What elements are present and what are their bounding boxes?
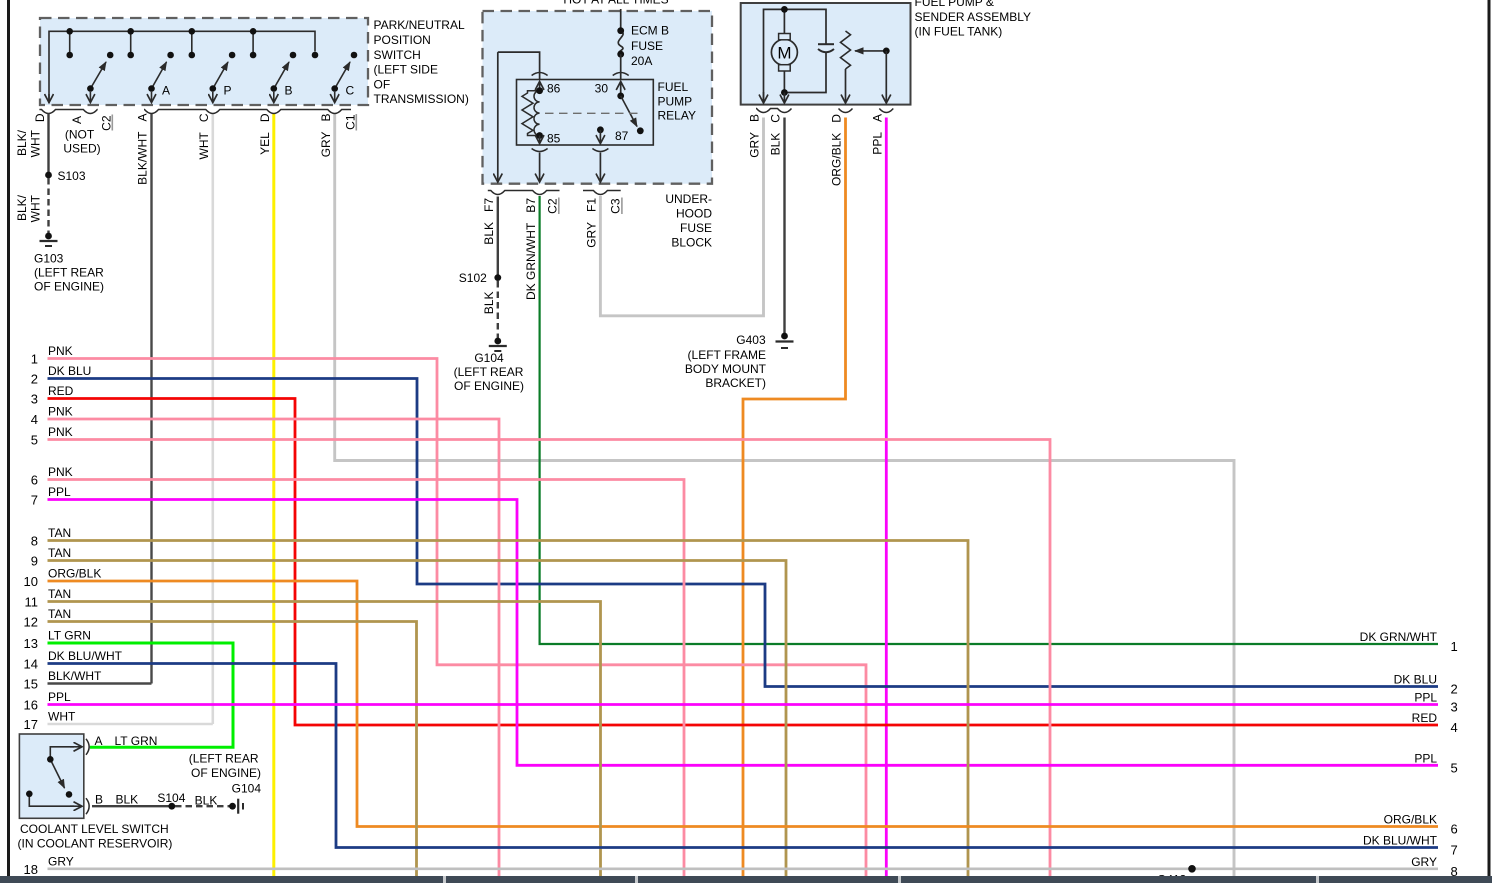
sender wiper arrow [855, 50, 886, 52]
svg-text:14: 14 [24, 657, 38, 672]
svg-text:GRY: GRY [48, 854, 74, 868]
svg-text:WHT C: WHT C [197, 113, 211, 159]
svg-text:5: 5 [31, 433, 38, 448]
svg-text:87: 87 [615, 129, 629, 143]
sender exit cup D [839, 109, 853, 113]
wire ORG/BLK from sender D down into bottom edge [743, 118, 846, 877]
svg-text:HOT AT ALL TIMES: HOT AT ALL TIMES [563, 0, 668, 7]
svg-text:S103: S103 [58, 169, 86, 183]
svg-text:ORG/BLK D: ORG/BLK D [830, 114, 844, 186]
svg-text:BLK/WHT A: BLK/WHT A [136, 114, 150, 185]
svg-text:G103: G103 [34, 252, 64, 266]
svg-text:LT GRN: LT GRN [48, 629, 91, 643]
underhood exit bracket F1/C3 [583, 191, 621, 195]
wire 18 GRY to edge connector 8 [48, 867, 1439, 870]
svg-text:BODY MOUNT: BODY MOUNT [685, 362, 767, 376]
wire 13 LT GRN to coolant switch A [48, 643, 234, 747]
svg-text:9: 9 [31, 554, 38, 569]
wire 15 BLK/WHT stub to park switch A [48, 682, 152, 684]
wire 10 ORG/BLK [48, 581, 1439, 827]
svg-text:8: 8 [31, 534, 38, 549]
svg-text:OF: OF [374, 77, 391, 91]
relay internal dashed divider [545, 112, 640, 114]
wire relay 87 to F1 exit [599, 153, 601, 183]
svg-text:PPL: PPL [1414, 691, 1437, 705]
svg-text:(LEFT REAR: (LEFT REAR [189, 751, 259, 765]
svg-text:TAN: TAN [48, 546, 71, 560]
wire YEL from park terminal D down into bottom edge [272, 114, 275, 877]
ground G103 [34, 233, 104, 294]
svg-text:BLK: BLK [482, 292, 496, 315]
svg-text:13: 13 [24, 636, 38, 651]
wire BLK/WHT dashed to G103 [47, 178, 49, 236]
bus stub contacts [69, 31, 71, 55]
svg-text:6: 6 [1451, 822, 1458, 837]
park/neutral position switch box [40, 18, 368, 105]
svg-text:GRY B: GRY B [748, 114, 762, 158]
wire PPL from sender A down into bottom edge [885, 118, 888, 877]
svg-text:PPL: PPL [48, 485, 71, 499]
svg-text:6: 6 [31, 473, 38, 488]
svg-text:C2: C2 [546, 198, 560, 214]
wire BLK dashed to G104 [175, 805, 233, 807]
svg-text:LT GRN: LT GRN [115, 734, 158, 748]
terminal B internal wire [29, 794, 74, 806]
connector bracket C2 under park box [39, 110, 97, 114]
svg-text:FUEL PUMP &: FUEL PUMP & [915, 0, 994, 9]
svg-text:BLK F7: BLK F7 [482, 198, 496, 245]
svg-text:COOLANT LEVEL SWITCH: COOLANT LEVEL SWITCH [20, 822, 169, 836]
svg-text:PNK: PNK [48, 344, 73, 358]
svg-text:BRACKET): BRACKET) [705, 376, 766, 390]
ground G403 [685, 333, 794, 390]
svg-text:11: 11 [25, 595, 39, 610]
junction dot on wire 18 [1188, 865, 1196, 873]
wire BLK B to S104 [92, 805, 172, 807]
svg-text:HOOD: HOOD [676, 206, 712, 220]
svg-text:3: 3 [1451, 700, 1458, 715]
svg-text:PPL: PPL [1414, 751, 1437, 765]
svg-text:YEL D: YEL D [258, 113, 272, 155]
svg-text:7: 7 [31, 493, 38, 508]
svg-text:4: 4 [1451, 720, 1458, 735]
wire 8 TAN [48, 541, 969, 877]
svg-text:G104: G104 [474, 351, 504, 365]
svg-text:RELAY: RELAY [658, 109, 696, 123]
svg-text:BLK C: BLK C [769, 114, 783, 156]
svg-text:UNDER-: UNDER- [665, 192, 712, 206]
svg-text:C3: C3 [609, 198, 623, 214]
svg-text:12: 12 [24, 615, 38, 630]
svg-text:ORG/BLK: ORG/BLK [1384, 813, 1437, 827]
svg-text:RED: RED [48, 384, 74, 398]
svg-text:BLK: BLK [195, 794, 218, 808]
svg-text:4: 4 [31, 412, 38, 427]
pivot exit arrows to box bottom [48, 94, 50, 103]
underhood fuse block dashed box (HOT AT ALL TIMES) [483, 11, 713, 184]
svg-text:G403: G403 [736, 333, 769, 347]
svg-text:10: 10 [24, 574, 38, 589]
coolant connector cups [86, 739, 89, 755]
svg-text:SWITCH: SWITCH [374, 48, 421, 62]
junction dots on motor stems [781, 6, 788, 13]
wire 11 TAN [48, 602, 601, 877]
svg-text:3: 3 [31, 392, 38, 407]
switch arm 5 (terminal C) [335, 62, 350, 89]
pivot dots [87, 85, 94, 92]
svg-text:(LEFT REAR: (LEFT REAR [454, 365, 524, 379]
svg-text:PNK: PNK [48, 465, 73, 479]
svg-text:TRANSMISSION): TRANSMISSION) [374, 92, 469, 106]
svg-text:M: M [777, 44, 791, 63]
wire 7 PPL [48, 500, 1439, 766]
wiper to terminal A [885, 51, 887, 103]
bus wire [49, 31, 315, 103]
wire 5 PNK [48, 440, 1051, 877]
wire fuse to relay pin 30 [620, 54, 622, 96]
svg-text:ORG/BLK: ORG/BLK [48, 567, 101, 581]
wire 17 WHT stub to park switch C [48, 723, 213, 726]
svg-text:GRY: GRY [1411, 855, 1437, 869]
svg-text:OF ENGINE): OF ENGINE) [454, 379, 524, 393]
exit arrows B and C [763, 92, 765, 103]
switch arm 1 (terminal A not used) [90, 62, 106, 89]
svg-text:OF ENGINE): OF ENGINE) [34, 280, 104, 294]
svg-text:OF ENGINE): OF ENGINE) [191, 766, 261, 780]
svg-text:FUEL: FUEL [658, 80, 689, 94]
relay pin 87 [597, 126, 604, 133]
capacitor plates [818, 43, 834, 45]
svg-text:1: 1 [1451, 639, 1458, 654]
splice S104 [168, 803, 175, 810]
motor stem bottom [783, 71, 785, 93]
svg-text:B: B [95, 793, 103, 807]
svg-text:BLK/: BLK/ [15, 194, 29, 221]
bottom rail motor/capacitor [784, 53, 826, 93]
svg-text:PNK: PNK [48, 405, 73, 419]
svg-text:BLK/: BLK/ [15, 129, 29, 156]
relay switch arm 30-87 [621, 96, 637, 127]
relay pin 85 [536, 132, 543, 139]
svg-text:1: 1 [31, 352, 38, 367]
wire relay 85 to B7 exit [539, 153, 541, 183]
svg-text:RED: RED [1412, 711, 1438, 725]
coolant level switch box [19, 734, 83, 818]
wire BLK/WHT terminal D down to S103 [47, 114, 49, 176]
svg-text:A: A [162, 84, 170, 98]
fuse ECM B 20A [618, 31, 623, 55]
wire DK GRN/WHT from relay B7 down, right to edge connector 1 [540, 196, 1438, 644]
svg-text:TAN: TAN [48, 526, 71, 540]
svg-text:FUSE: FUSE [631, 39, 663, 53]
relay coil between 86 and 85 [522, 91, 540, 136]
terminal A internal wire [50, 747, 74, 760]
svg-text:18: 18 [24, 862, 38, 877]
svg-text:C2: C2 [100, 115, 114, 131]
svg-text:G104: G104 [232, 782, 262, 796]
wire GRY from relay F1 to fuel pump B [600, 118, 763, 316]
wire 14 DK BLU/WHT [48, 664, 1439, 848]
switch arm [50, 759, 64, 788]
svg-text:86: 86 [547, 82, 561, 96]
svg-text:GRY B: GRY B [319, 114, 333, 158]
wire 16 PPL straight to edge connector 3 [48, 703, 1439, 706]
splice S103 [45, 172, 52, 179]
svg-text:DK BLU/WHT: DK BLU/WHT [1363, 834, 1438, 848]
connector chevrons above relay [532, 73, 548, 76]
wire 2 DK BLU [48, 379, 1439, 687]
svg-text:PUMP: PUMP [658, 94, 693, 108]
svg-text:TAN: TAN [48, 587, 71, 601]
splice S102 [494, 274, 501, 281]
connector bracket C1 under park box [144, 110, 351, 114]
svg-text:PARK/NEUTRAL: PARK/NEUTRAL [374, 18, 465, 32]
svg-text:GRY F1: GRY F1 [585, 198, 599, 248]
switch arm 3 (terminal P) [213, 62, 228, 89]
wire F7 loop to relay pin 86 [498, 52, 540, 91]
svg-text:(LEFT SIDE: (LEFT SIDE [374, 63, 438, 77]
svg-text:S104: S104 [157, 791, 185, 805]
svg-text:7: 7 [1451, 843, 1458, 858]
svg-text:2: 2 [31, 372, 38, 387]
svg-text:ECM B: ECM B [631, 24, 669, 38]
svg-text:PNK: PNK [48, 425, 73, 439]
svg-text:(IN FUEL TANK): (IN FUEL TANK) [915, 25, 1003, 39]
svg-text:TAN: TAN [48, 607, 71, 621]
svg-text:A: A [70, 116, 84, 124]
svg-text:17: 17 [24, 717, 38, 732]
motor stem top [783, 9, 785, 33]
svg-text:BLK: BLK [116, 793, 139, 807]
svg-text:C1: C1 [343, 114, 357, 130]
svg-text:P: P [224, 84, 232, 98]
wire BLK/WHT from park terminal A(C1) down to wire 15 [150, 114, 152, 684]
switch arm 4 (terminal B) [274, 62, 289, 89]
svg-text:PPL A: PPL A [871, 114, 885, 155]
wire WHT from park terminal C down to wire 17 [212, 114, 215, 725]
fixed contact dots [66, 52, 73, 59]
wire 1 PNK [48, 359, 867, 877]
svg-text:DK GRN/WHT: DK GRN/WHT [1360, 630, 1438, 644]
svg-text:20A: 20A [631, 54, 652, 68]
sender variable resistor [841, 31, 851, 69]
svg-text:WHT: WHT [48, 710, 76, 724]
svg-text:FUSE: FUSE [680, 221, 712, 235]
svg-text:D: D [33, 113, 47, 122]
svg-text:BLOCK: BLOCK [671, 235, 712, 249]
svg-text:C: C [346, 84, 355, 98]
relay box [517, 80, 654, 146]
wire 9 TAN [48, 561, 787, 877]
wire GRY from park terminal B right and down into bottom edge [335, 114, 1234, 877]
switch arm 2 (terminal A) [152, 62, 167, 89]
wire 3 RED [48, 399, 1439, 726]
bus junction dots [66, 28, 73, 35]
ground G104 (left rear of engine) [454, 338, 524, 393]
wire 12 TAN [48, 622, 417, 877]
fuel pump motor M1 [771, 39, 797, 65]
connector cups below relay [532, 149, 548, 152]
ground G104 (left rear of engine, bottom) [189, 751, 262, 813]
page left border [7, 0, 10, 876]
svg-text:(LEFT REAR: (LEFT REAR [34, 266, 104, 280]
svg-text:SENDER ASSEMBLY: SENDER ASSEMBLY [915, 10, 1031, 24]
svg-text:DK BLU/WHT: DK BLU/WHT [48, 649, 123, 663]
relay pin 30 entry arrow [620, 82, 622, 96]
svg-text:2: 2 [1451, 682, 1458, 697]
svg-text:30: 30 [595, 82, 609, 96]
wire BLK C to ground G403 [783, 118, 785, 337]
top rail [764, 9, 827, 102]
fuel pump & sender assembly box [741, 3, 911, 105]
svg-text:WHT: WHT [29, 194, 43, 222]
svg-text:(LEFT FRAME: (LEFT FRAME [688, 348, 766, 362]
wire BLK F7 down to S102 [497, 197, 499, 278]
wire BLK dashed to G104 [497, 281, 499, 341]
svg-text:S102: S102 [459, 271, 494, 285]
page right border [1488, 0, 1491, 876]
relay pin 86 entry arrow [539, 82, 541, 91]
svg-text:16: 16 [24, 698, 38, 713]
svg-text:WHT: WHT [29, 129, 43, 157]
svg-text:USED): USED) [63, 142, 100, 156]
svg-text:5: 5 [1451, 760, 1458, 775]
underhood exit bracket F7/B7/C2 [488, 191, 560, 195]
wire 6 PNK [48, 480, 685, 877]
sender exit cup A [879, 109, 893, 113]
svg-text:B: B [285, 84, 293, 98]
svg-text:(NOT: (NOT [65, 127, 95, 141]
sender exit bracket B/C [756, 109, 792, 113]
svg-text:DK BLU: DK BLU [48, 364, 91, 378]
svg-text:A: A [95, 734, 103, 748]
svg-text:POSITION: POSITION [374, 33, 431, 47]
wire 4 PNK [48, 419, 500, 876]
svg-text:DK BLU: DK BLU [1394, 673, 1437, 687]
svg-text:DK GRN/WHT B7: DK GRN/WHT B7 [524, 198, 538, 300]
svg-text:PPL: PPL [48, 690, 71, 704]
svg-text:(IN COOLANT RESERVOIR): (IN COOLANT RESERVOIR) [18, 836, 173, 850]
bottom taskbar [0, 876, 1492, 883]
svg-text:15: 15 [24, 677, 38, 692]
svg-text:BLK/WHT: BLK/WHT [48, 669, 102, 683]
svg-text:85: 85 [547, 132, 561, 146]
